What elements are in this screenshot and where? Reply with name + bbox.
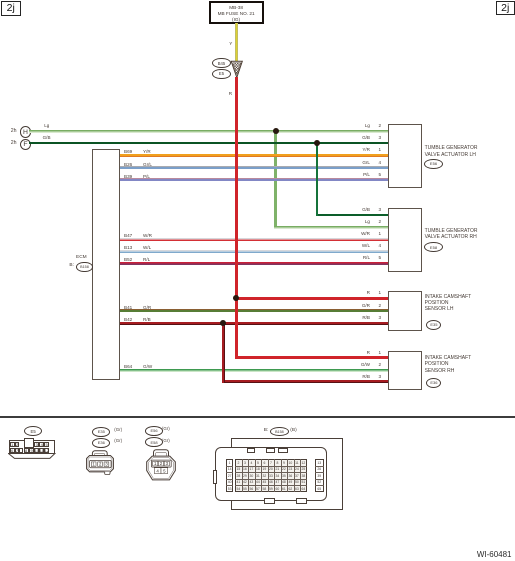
wire G/R B41 bbox=[120, 309, 388, 312]
wire R/L B52 bbox=[120, 262, 388, 265]
node 2h H bbox=[11, 129, 17, 134]
doc number WI-60481 bbox=[477, 551, 512, 559]
connector ref B45 bbox=[212, 58, 231, 68]
label ECM bbox=[76, 256, 87, 261]
ECM connector pin grid 2-64 bbox=[235, 459, 307, 492]
fuse MB-38 MB FUSE NO. 21 (IG) bbox=[209, 1, 264, 23]
wire R to cam RH pin1 bbox=[236, 356, 387, 359]
wire W/L B13 bbox=[120, 250, 388, 253]
wire R/B to cam RH pin3 bbox=[223, 380, 387, 383]
separator line bbox=[0, 416, 515, 417]
wire P/L B39 bbox=[120, 178, 388, 181]
pin B39 P/L bbox=[124, 175, 132, 180]
connector ref E5 bbox=[212, 69, 231, 79]
wire R/B branch vertical bbox=[222, 323, 225, 383]
node 2h F bbox=[11, 141, 17, 146]
connector drawing E35/E36 bbox=[92, 427, 110, 437]
ECM connector pin column 1/14/27/40/53 bbox=[226, 459, 233, 492]
wire Lg from H bbox=[29, 130, 388, 133]
pin B13 W/L bbox=[124, 246, 132, 251]
connector drawing E56/E58 bbox=[145, 426, 163, 436]
pin B47 W/R bbox=[124, 234, 132, 239]
ECM connector pin column 13/26/39/52/65 bbox=[315, 459, 324, 492]
wire G/B from F bbox=[29, 142, 388, 145]
junction G/B bbox=[314, 140, 320, 146]
wire G/B branch vertical bbox=[316, 143, 319, 216]
junction Lg bbox=[273, 128, 279, 134]
pin B41 G/R bbox=[124, 306, 132, 311]
pin B26 Gr/L bbox=[124, 163, 132, 168]
label R bbox=[229, 92, 232, 97]
wire R to cam LH pin1 bbox=[236, 297, 387, 300]
wire Lg to RH pin2 bbox=[274, 226, 388, 229]
wire G/B to RH pin3 bbox=[317, 214, 388, 217]
wire Gr/L B26 bbox=[120, 166, 388, 169]
wire Y/R B69 bbox=[120, 154, 388, 157]
pin B64 G/W bbox=[124, 365, 132, 370]
page ref 2j top-left bbox=[1, 1, 21, 16]
connector drawing E5 bbox=[24, 426, 42, 436]
wire G/W B64 bbox=[120, 369, 388, 372]
ECM box bbox=[92, 149, 120, 380]
label B: bbox=[69, 264, 74, 269]
connector ref B158 bbox=[76, 262, 93, 273]
wire Lg branch vertical bbox=[274, 131, 276, 228]
tumble generator valve actuator RH box E58 bbox=[388, 208, 422, 272]
junction R/B bbox=[220, 320, 226, 326]
tumble generator valve actuator LH box E56 bbox=[388, 124, 422, 188]
page ref 2j top-right bbox=[496, 1, 515, 16]
wire R/B B42 bbox=[120, 322, 388, 325]
junction R bbox=[233, 295, 239, 301]
wire R trunk (over) bbox=[235, 77, 238, 359]
wire R trunk vertical bbox=[235, 77, 238, 359]
connector symbol B45/E5 triangle bbox=[228, 59, 245, 79]
pin B42 R/B bbox=[124, 318, 132, 323]
wire W/R B47 bbox=[120, 238, 388, 241]
intake camshaft position sensor LH box E35 bbox=[388, 291, 422, 331]
label Y bbox=[229, 42, 232, 47]
pin B69 Y/R bbox=[124, 150, 132, 155]
pin B52 R/L bbox=[124, 258, 132, 263]
connector drawing B158 ECM bbox=[264, 429, 269, 434]
wire Y from fuse bbox=[235, 23, 238, 61]
intake camshaft position sensor RH box E36 bbox=[388, 351, 422, 391]
